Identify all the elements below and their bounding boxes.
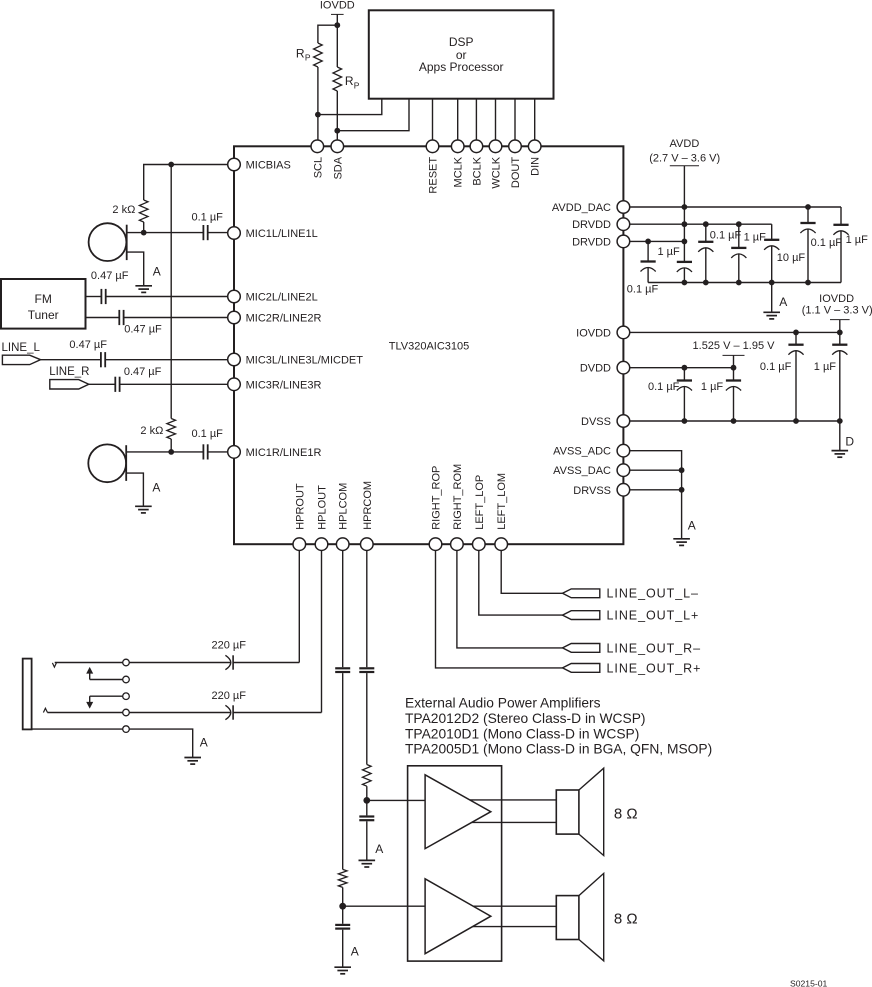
svg-text:MIC3R/LINE3R: MIC3R/LINE3R [246,379,322,391]
wire IOVDD to SDA vertical [336,25,338,67]
junction row1 0.1uF [703,221,709,227]
pin MIC2L/LINE2L circle [228,290,241,303]
wire DVSS row [623,420,839,422]
wire 10uF to bus [771,246,773,283]
svg-text:LINE_OUT_L–: LINE_OUT_L– [607,587,699,601]
pin DIN circle [528,140,541,153]
junction mic1 node [141,230,147,236]
svg-text:HPROUT: HPROUT [294,483,306,530]
wire DVSS to ground D [839,421,841,451]
wire R_P1 to SCL pin [317,67,319,141]
wire bias rail vertical [170,165,172,419]
wire DSP to chip pin at x=457.7 [457,99,459,141]
wire HPLOUT vertical [321,544,323,712]
wire MIC1L row left [127,232,204,234]
wire jack switch3 contact [90,695,123,697]
pin DVSS circle [617,415,630,428]
pin MIC1R/LINE1R circle [228,446,241,459]
svg-text:IOVDD: IOVDD [576,327,611,339]
svg-text:P: P [354,80,360,90]
external amplifier box [408,766,502,961]
svg-text:MIC1R/LINE1R: MIC1R/LINE1R [246,447,322,459]
pin DVDD circle [617,361,630,374]
svg-text:DOUT: DOUT [510,157,522,188]
svg-text:AVDD_DAC: AVDD_DAC [552,202,611,214]
wire mic2 ground leg [126,473,143,506]
ground (analog) amp2 [334,967,351,974]
capacitor 1 uF (AVDD right) [833,225,848,235]
capacitor 0.1 uF (AVDD right) [800,223,815,233]
wire MIC2R row right [124,317,234,319]
svg-text:FM: FM [35,292,52,306]
svg-text:LINE_OUT_R–: LINE_OUT_R– [607,641,702,655]
svg-text:TPA2005D1 (Mono Class-D in BGA: TPA2005D1 (Mono Class-D in BGA, QFN, MSO… [405,742,712,757]
wire MIC3R row left [89,383,116,385]
pin AVSS_DAC circle [617,464,630,477]
pin MIC3L/LINE3L/MICDET circle [228,353,241,366]
junction bus x=684.4 [682,280,688,286]
wire AVDD stem lower [683,207,685,262]
wire jack switch2 stem [89,673,91,679]
ground (analog) mic2 [135,506,152,513]
svg-text:0.47 µF: 0.47 µF [91,270,129,282]
jack switch3 arrow down [86,702,93,709]
wire 0.1uF left to bus [647,268,649,283]
pin MICBIAS circle [228,158,241,171]
pin DOUT circle [509,140,522,153]
capacitor amp2 node bypass [335,925,350,929]
wire resistor to amp2 node [342,887,344,906]
junction IOVDD row 0.1uF [793,330,799,336]
capacitor 1 uF (DRVDD mid) [731,248,746,258]
svg-text:MIC2R/LINE2R: MIC2R/LINE2R [246,313,322,325]
wire node to cap amp1 [366,800,368,815]
resistor R_P (SCL pull-up) [314,43,323,67]
capacitor 0.47 uF (MIC2L) [101,289,105,304]
junction amp1 input node [363,797,370,804]
svg-text:TLV320AIC3105: TLV320AIC3105 [389,341,470,353]
pin IOVDD circle [617,326,630,339]
wire jack sleeve [32,728,123,730]
resistor HPRCOM chain [363,765,372,787]
capacitor 220 uF (HPROUT) polarized [225,655,233,669]
wire 2k to mic1 node [143,222,145,233]
capacitor 0.1 uF (IOVDD) [788,345,803,355]
svg-text:2 kΩ: 2 kΩ [140,425,163,437]
wire amp2 input [343,905,426,907]
wire 1uF IOVDD to DVSS [839,351,841,421]
junction IOVDD row stem [837,330,843,336]
wire cap to ground amp1 [366,821,368,860]
jack contact circle 2 [123,676,130,683]
wire DRVSS [623,489,681,491]
junction DVSS right corner [837,418,843,424]
jack contact circle 3 [123,693,130,700]
pin DRVDD circle [617,235,630,248]
svg-text:WCLK: WCLK [491,156,503,188]
svg-text:Apps Processor: Apps Processor [419,60,504,74]
wire 0.1uF left stem [647,241,649,261]
junction row2 0.1uF left [645,239,651,245]
svg-text:MIC3L/LINE3L/MICDET: MIC3L/LINE3L/MICDET [246,355,364,367]
svg-text:S0215-01: S0215-01 [790,978,827,987]
wire jack tip contact [55,662,123,664]
microphone MIC1 (left) [89,223,127,261]
junction bus x=808 [805,280,811,286]
junction amp2 input node [339,903,346,910]
wire AVSS_ADC [623,451,681,539]
wire DSP to chip pin at x=515.0 [514,99,516,141]
pin AVSS_ADC circle [617,444,630,457]
svg-text:10 µF: 10 µF [777,252,806,264]
wire 0.1uF mid to bus [705,248,707,283]
wire AVDD_DAC corner to right 1uF [840,207,842,225]
DSP / Apps Processor box [369,10,554,98]
svg-text:MIC1L/LINE1L: MIC1L/LINE1L [246,228,318,240]
svg-text:DRVSS: DRVSS [573,485,611,497]
pin WCLK circle [489,140,502,153]
wire 0.1uF right stem [807,207,809,223]
wire mic1 ground leg [127,252,144,286]
wire AVDD decoupling bus [648,282,841,284]
wire 1uF DVDD to DVSS [733,387,735,422]
wire amp1 out bottom [472,821,557,823]
wire IOVDD row [623,331,839,333]
ground (analog) AVSS [673,539,690,546]
svg-text:IOVDD: IOVDD [320,0,355,12]
wire DRVDD row1 corner to 10uF [771,224,773,240]
output tag LINE_OUT_L+ [563,611,600,620]
wire MIC3R row right [120,383,234,385]
capacitor 1 uF (DVDD) [726,381,741,391]
pin RESET circle [426,140,439,153]
wire HPRCOM vertical upper [366,544,368,667]
power rail IOVDD T-bar [331,13,344,15]
svg-text:A: A [152,481,160,495]
pin HPRCOM circle [361,538,374,551]
jack contact circle 1 [123,659,130,666]
capacitor 10 uF [764,240,779,250]
wire DSP to chip pin at x=534.7 [534,99,536,141]
wire DVDD row [623,367,733,369]
svg-text:(1.1 V – 3.3 V): (1.1 V – 3.3 V) [802,304,872,316]
svg-text:AVDD: AVDD [670,138,700,150]
wire IOVDD stem [336,14,338,25]
output tag LINE_OUT_R- [563,644,600,653]
pin RIGHT_ROM circle [451,538,464,551]
capacitor 1 uF (IOVDD) [832,345,847,355]
junction bus x=738.8 [736,280,742,286]
pin HPLCOM circle [336,538,349,551]
wire LEFT_LOM to tag [501,544,562,593]
svg-text:P: P [305,53,311,63]
wire MIC1L row right [208,232,234,234]
svg-text:A: A [375,842,383,856]
wire MIC2L row right [106,296,234,298]
svg-text:LINE_OUT_L+: LINE_OUT_L+ [607,609,700,623]
svg-text:RESET: RESET [428,157,440,194]
capacitor 1 uF (AVDD stem) [677,262,692,272]
junction IOVDD branch [334,22,340,28]
wire 2k lower to mic2 node [170,439,172,452]
svg-text:MICBIAS: MICBIAS [246,160,291,172]
input tag LINE_R [50,380,89,389]
pin RIGHT_ROP circle [429,538,442,551]
input tag LINE_L [2,355,40,364]
svg-text:DSP: DSP [449,35,474,49]
wire node to cap [342,906,344,924]
svg-text:SDA: SDA [332,156,344,179]
svg-text:0.1 µF: 0.1 µF [710,229,742,241]
wire AVDD_DAC row [623,206,841,208]
svg-text:0.47 µF: 0.47 µF [124,366,162,378]
svg-text:A: A [351,945,359,959]
wire MIC3L row left [41,359,101,361]
capacitor 0.47 uF (MIC2R) [119,310,123,325]
svg-text:0.1 µF: 0.1 µF [627,284,659,296]
wire jack switch2 contact [90,679,123,681]
pin MCLK circle [451,140,464,153]
wire 1uF stem to bus [683,268,685,283]
svg-text:DRVDD: DRVDD [572,236,611,248]
wire 0.1uF right to bus [807,229,809,283]
wire DVDD stem [733,355,735,380]
wire resistor to amp1 node [366,786,368,800]
wire 0.1uF mid stem [705,224,707,242]
wire DSP to chip pin at x=432.5 [432,99,434,141]
wire 0.1uF IOVDD stem [795,332,797,344]
pin MIC2R/LINE2R circle [228,311,241,324]
wire DSP to chip pin at x=476.4 [475,99,477,141]
wire HPLCOM vertical lower [342,673,344,869]
svg-text:LINE_L: LINE_L [2,342,41,354]
svg-text:0.47 µF: 0.47 µF [124,324,162,336]
svg-text:HPRCOM: HPRCOM [362,481,374,530]
svg-text:AVSS_ADC: AVSS_ADC [553,446,611,458]
capacitor 220 uF (HPLOUT) polarized [225,705,233,719]
wire branch to R_P1 [318,25,337,43]
svg-text:1 µF: 1 µF [814,361,837,373]
jack contact circle 4 [123,709,130,716]
wire 1uF mid to bus [738,254,740,283]
svg-text:1.525 V – 1.95 V: 1.525 V – 1.95 V [693,340,776,352]
wire sleeve to ground [129,729,192,757]
wire amp1 out top [470,799,557,801]
wire 0.1uF IOVDD to DVSS [795,351,797,421]
svg-text:AVSS_DAC: AVSS_DAC [553,465,611,477]
svg-text:DVSS: DVSS [581,416,611,428]
pin DRVDD circle [617,218,630,231]
jack ring spring mark [43,708,47,712]
jack contact circle 5 [123,726,130,733]
svg-text:RIGHT_ROP: RIGHT_ROP [431,466,443,530]
wire jack tip to cap [129,662,230,664]
wire 1uF right to bus [840,231,842,283]
wire jack switch3 stem [89,696,91,702]
svg-text:1 µF: 1 µF [846,234,869,246]
speaker SP1 cone [579,768,604,855]
wire AVDD stem [683,166,685,207]
wire RIGHT_ROP to tag [436,544,563,668]
pin LEFT_LOP circle [473,538,486,551]
pin SDA circle [331,140,344,153]
svg-text:1 µF: 1 µF [744,231,767,243]
ground (analog) amp1 [359,860,376,867]
junction bus x=771.7 [769,280,775,286]
wire cap to HPLOUT [233,712,321,714]
svg-text:SCL: SCL [312,157,324,178]
svg-text:A: A [153,265,161,279]
ground (analog) jack [184,758,201,765]
svg-text:TPA2010D1 (Mono Class-D in WCS: TPA2010D1 (Mono Class-D in WCSP) [405,726,639,741]
junction bus x=705.8 [703,280,709,286]
pin HPROUT circle [293,538,306,551]
svg-text:IOVDD: IOVDD [819,293,854,305]
wire HPLCOM vertical upper [342,544,344,667]
FM Tuner box [1,279,86,329]
wire MIC2R row left [86,317,120,319]
capacitor 0.1 uF (DVDD) [677,381,692,391]
wire SCL node to DSP [318,99,382,115]
svg-text:LINE_OUT_R+: LINE_OUT_R+ [607,661,702,675]
ground (analog) mic1 [135,286,152,293]
junction DVDD 0.1uF [682,365,688,371]
svg-text:HPLCOM: HPLCOM [338,483,350,530]
svg-text:HPLOUT: HPLOUT [317,485,329,530]
wire 0.1uF DVDD to DVSS [683,387,685,422]
resistor 2 kOhm (MIC1R bias) [167,419,176,440]
junction DVSS x=733.5 [731,418,737,424]
speaker SP1 body [556,790,579,834]
svg-text:8 Ω: 8 Ω [614,911,638,928]
wire HPROUT vertical [298,544,300,662]
svg-text:DIN: DIN [530,157,542,176]
svg-text:2 kΩ: 2 kΩ [112,204,135,216]
junction SDA node [334,128,340,134]
wire DSP to chip pin at x=495.5 [495,99,497,141]
svg-text:R: R [345,74,354,88]
svg-text:DVDD: DVDD [580,363,611,375]
pin AVDD_DAC circle [617,201,630,214]
junction AVDD_DAC / 0.1uF right [805,204,811,210]
junction row1 stem [682,221,688,227]
svg-text:0.1 µF: 0.1 µF [191,212,223,224]
wire RIGHT_ROM to tag [457,544,563,648]
svg-text:LEFT_LOP: LEFT_LOP [474,475,486,530]
speaker SP2 cone [579,873,604,960]
op-amp A2 triangle [425,879,491,954]
op-amp A1 triangle [425,775,491,849]
wire IOVDD right stem [839,320,841,345]
junction SCL node [315,112,321,118]
junction AVDD_DAC / AVDD stem [682,204,688,210]
svg-text:0.47 µF: 0.47 µF [69,339,107,351]
resistor 2 kOhm (MIC1L bias) [139,200,148,222]
resistor R_P (SDA pull-up) [333,67,342,91]
ground (digital) D [832,451,849,458]
svg-text:LINE_R: LINE_R [49,366,89,378]
svg-text:Tuner: Tuner [28,308,59,322]
ground (analog) AVDD bus [763,312,780,319]
wire amp2 out top [473,905,556,907]
capacitor 0.47 uF (MIC3R) [115,377,119,392]
wire jack ring contact [47,712,122,714]
capacitor 0.1 uF (MIC1R) [203,444,207,459]
pin LEFT_LOM circle [495,538,508,551]
svg-text:External Audio Power Amplifier: External Audio Power Amplifiers [405,696,601,711]
junction MICBIAS / bias rail [168,162,174,168]
headphone jack body [23,659,32,730]
wire MICBIAS net [144,165,234,201]
junction AVSS_DAC [679,467,685,473]
jack tip spring mark [52,663,56,667]
power rail AVDD T-bar [670,165,699,167]
capacitor HPLCOM series [335,668,350,672]
junction DRVSS [679,487,685,493]
capacitor 0.1 uF (DRVDD left) [641,262,656,272]
junction DVSS x=684.4 [682,418,688,424]
svg-text:MIC2L/LINE2L: MIC2L/LINE2L [246,292,318,304]
svg-text:DRVDD: DRVDD [572,219,611,231]
power rail DVDD T-bar [723,354,745,356]
pin DRVSS circle [617,484,630,497]
wire MIC1R row left [126,451,203,453]
junction DVDD stem [731,365,737,371]
junction row1 1uF [736,221,742,227]
capacitor 0.47 uF (MIC3L) [101,352,105,367]
jack switch2 arrow up [86,667,93,674]
wire MIC2L row left [86,296,102,298]
resistor HPLCOM chain [338,869,347,887]
wire R_P2 to SDA pin [336,91,338,141]
wire SDA node to DSP [337,99,409,131]
svg-text:TPA2012D2 (Stereo Class-D in W: TPA2012D2 (Stereo Class-D in WCSP) [405,711,646,726]
svg-text:R: R [296,47,305,61]
wire amp1 input [367,799,425,801]
svg-text:0.1 µF: 0.1 µF [760,361,792,373]
wire 1uF mid stem [738,224,740,248]
svg-text:LEFT_LOM: LEFT_LOM [496,473,508,530]
pin HPLOUT circle [315,538,328,551]
svg-text:220 µF: 220 µF [211,640,246,652]
capacitor 0.1 uF (DRVDD mid) [698,242,713,252]
wire jack ring to cap [129,712,230,714]
svg-text:1 µF: 1 µF [657,246,680,258]
svg-text:(2.7 V – 3.6 V): (2.7 V – 3.6 V) [649,152,720,164]
svg-text:A: A [779,295,787,309]
pin MIC1L/LINE1L circle [228,227,241,240]
pin BCLK circle [470,140,483,153]
svg-text:A: A [200,736,208,750]
wire HPRCOM vertical lower [366,673,368,764]
svg-text:D: D [845,434,854,448]
wire MIC3L row right [105,359,234,361]
wire HPROUT row to cap [233,662,299,664]
svg-text:0.1 µF: 0.1 µF [648,381,680,393]
pin SCL circle [311,140,324,153]
wire DRVDD row1 [623,223,771,225]
svg-text:RIGHT_ROM: RIGHT_ROM [452,464,464,530]
output tag LINE_OUT_L- [563,589,600,598]
wire bus to ground A [771,283,773,313]
svg-text:8 Ω: 8 Ω [614,806,638,823]
svg-text:0.1 µF: 0.1 µF [811,237,843,249]
wire MIC1R row right [208,451,234,453]
wire cap to ground [342,930,344,968]
speaker SP2 body [556,896,579,940]
svg-text:MCLK: MCLK [453,156,465,187]
svg-text:1 µF: 1 µF [701,381,724,393]
